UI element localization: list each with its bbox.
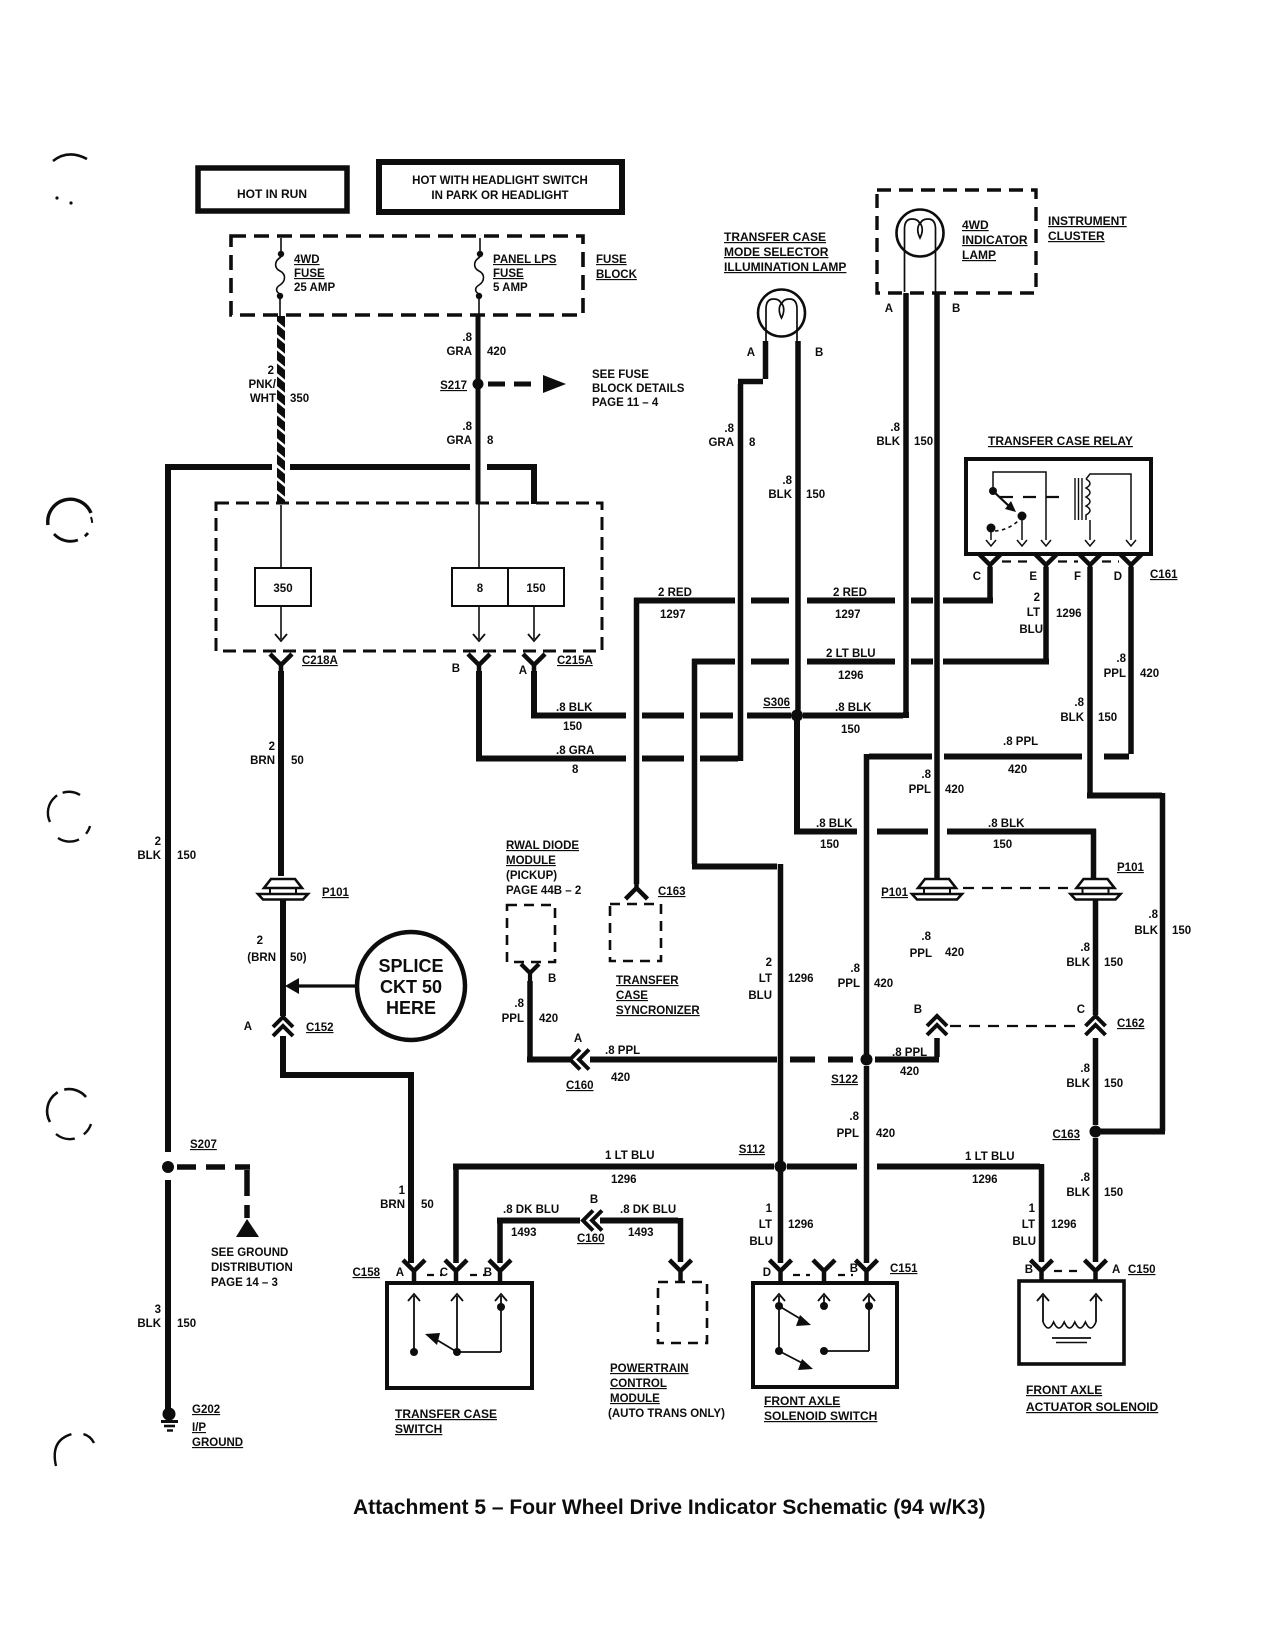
label 2 RED 1297 (left) xyxy=(658,587,692,621)
svg-text:C162: C162 xyxy=(1117,1018,1145,1030)
svg-text:25 AMP: 25 AMP xyxy=(294,282,335,294)
svg-text:SYNCRONIZER: SYNCRONIZER xyxy=(616,1005,700,1017)
label illum pin B xyxy=(815,347,823,359)
connector C215A pin B xyxy=(452,654,490,675)
relay switch common contact xyxy=(1017,512,1027,547)
label 2 BLK 150 xyxy=(137,836,196,862)
svg-text:C163: C163 xyxy=(658,886,686,898)
connector C162 pin B xyxy=(914,1004,947,1035)
wire .8 PPL 420 relay D xyxy=(867,567,1132,1057)
svg-text:MODE SELECTOR: MODE SELECTOR xyxy=(724,245,829,259)
svg-text:2 RED: 2 RED xyxy=(833,587,867,599)
svg-text:BLU: BLU xyxy=(1012,1236,1036,1248)
label .8 PPL 420 (C160-S122) xyxy=(605,1045,640,1084)
label .8 GRA 8 xyxy=(446,421,494,447)
svg-text:P101: P101 xyxy=(1117,862,1144,874)
label 1 LT BLU 1296 (C150 B) xyxy=(1012,1203,1076,1248)
wire BRN below P101 xyxy=(280,900,286,1016)
svg-text:B: B xyxy=(548,973,556,985)
wire C215A-B to illum lamp A (.8 GRA 8) xyxy=(476,382,763,762)
label 3 BLK 150 xyxy=(137,1304,196,1330)
splice S207 xyxy=(162,1139,217,1173)
svg-text:GROUND: GROUND xyxy=(192,1437,243,1449)
svg-text:.8: .8 xyxy=(514,998,524,1010)
arrow from 350 box xyxy=(275,606,287,641)
svg-text:420: 420 xyxy=(876,1128,895,1140)
svg-text:1296: 1296 xyxy=(788,973,814,985)
wire 1 LT BLU 1296 xyxy=(453,1164,1042,1263)
label POWERTRAIN CONTROL MODULE (AUTO TRANS ONLY) xyxy=(608,1363,725,1420)
svg-text:150: 150 xyxy=(806,489,825,501)
svg-text:.8 PPL: .8 PPL xyxy=(892,1047,927,1059)
svg-text:.8: .8 xyxy=(1148,909,1158,921)
wire C215A-A to S306 .8 BLK 150 xyxy=(531,671,791,716)
relay switch NC contact xyxy=(986,524,996,547)
svg-text:1296: 1296 xyxy=(1056,608,1082,620)
svg-text:C: C xyxy=(973,571,981,583)
svg-text:A: A xyxy=(885,303,893,315)
label TRANSFER CASE MODE SELECTOR ILLUMINATION LAMP xyxy=(724,230,846,274)
solenoid coil C150 xyxy=(1037,1294,1102,1343)
connector C160 (DK BLU) xyxy=(577,1194,605,1245)
svg-text:50: 50 xyxy=(421,1199,434,1211)
caption Attachment 5 xyxy=(353,1496,986,1519)
svg-text:.8: .8 xyxy=(782,475,792,487)
svg-text:B: B xyxy=(484,1267,492,1279)
box circuit 8 xyxy=(452,568,508,606)
label SEE FUSE BLOCK DETAILS PAGE 11-4 xyxy=(592,369,685,409)
svg-text:.8 BLK: .8 BLK xyxy=(816,818,853,830)
svg-text:.8 DK BLU: .8 DK BLU xyxy=(620,1204,676,1216)
svg-text:(BRN: (BRN xyxy=(247,952,276,964)
connector PCM pin xyxy=(670,1260,692,1281)
svg-text:MODULE: MODULE xyxy=(506,855,556,867)
label TRANSFER CASE RELAY xyxy=(988,434,1133,448)
connector C158 pin A xyxy=(396,1260,425,1281)
svg-text:4WD: 4WD xyxy=(962,218,989,232)
svg-text:.8: .8 xyxy=(890,422,900,434)
label SEE GROUND DISTRIBUTION PAGE 14-3 xyxy=(211,1247,293,1289)
svg-text:FUSE: FUSE xyxy=(596,254,627,266)
svg-text:D: D xyxy=(763,1267,771,1279)
connector C161 pin D xyxy=(1114,554,1142,583)
relay switch pivot xyxy=(989,487,997,495)
switch C151 pole mid xyxy=(818,1294,830,1310)
label .8 GRA 8 (vertical) xyxy=(708,423,756,449)
label 1 LT BLU 1296 (left) xyxy=(605,1150,655,1186)
label .8 BLK 150 (to C150) xyxy=(1066,1172,1123,1199)
svg-text:2: 2 xyxy=(257,935,263,947)
label 1 BRN 50 xyxy=(380,1185,434,1211)
svg-text:2: 2 xyxy=(155,836,161,848)
svg-text:FUSE: FUSE xyxy=(294,268,325,280)
svg-text:SWITCH: SWITCH xyxy=(395,1422,442,1436)
svg-text:.8: .8 xyxy=(849,1111,859,1123)
svg-text:150: 150 xyxy=(820,839,839,851)
svg-text:8: 8 xyxy=(487,435,494,447)
connector P101 left grommet xyxy=(258,879,349,900)
label 2 LT BLU 1296 (vertical) xyxy=(748,957,813,1002)
wire .8 BLK 150 below C162 xyxy=(1093,1038,1099,1125)
wire .8 BLK 150 S306 branch right xyxy=(794,829,1096,878)
connector C161 pin F xyxy=(1074,554,1101,583)
svg-text:ACTUATOR SOLENOID: ACTUATOR SOLENOID xyxy=(1026,1400,1159,1414)
connector C162 pin C xyxy=(1077,1004,1145,1035)
svg-text:C: C xyxy=(1077,1004,1085,1016)
wire left rail horizontal run xyxy=(165,464,537,504)
svg-text:BLK: BLK xyxy=(137,1318,161,1330)
svg-text:BLK: BLK xyxy=(137,850,161,862)
label .8 BLK 150 (illum B) xyxy=(768,475,825,501)
svg-text:.8: .8 xyxy=(1080,942,1090,954)
svg-text:B: B xyxy=(850,1263,858,1275)
ground G202 xyxy=(161,1408,178,1431)
wire C163 tie to F branch xyxy=(1101,1129,1165,1135)
svg-text:420: 420 xyxy=(874,978,893,990)
node HOT WITH HEADLIGHT SWITCH feed box xyxy=(379,162,622,212)
svg-text:C160: C160 xyxy=(577,1233,605,1245)
label .8 PPL 420 (right of S122) xyxy=(892,1047,927,1078)
svg-text:POWERTRAIN: POWERTRAIN xyxy=(610,1363,689,1375)
splice C163 junction xyxy=(1053,1126,1102,1142)
label TRANSFER CASE SYNCRONIZER xyxy=(616,975,700,1017)
box circuit 350 xyxy=(255,568,311,606)
svg-text:C160: C160 xyxy=(566,1080,594,1092)
connector C150 dashed body xyxy=(1054,1270,1083,1272)
svg-text:BLK: BLK xyxy=(876,436,900,448)
svg-text:BRN: BRN xyxy=(250,755,275,767)
svg-text:B: B xyxy=(914,1004,922,1016)
svg-text:(AUTO TRANS ONLY): (AUTO TRANS ONLY) xyxy=(608,1408,725,1420)
svg-text:PPL: PPL xyxy=(502,1013,524,1025)
connector C158 pin B xyxy=(484,1260,511,1281)
connector C158 pin C xyxy=(440,1260,467,1281)
svg-text:BLOCK DETAILS: BLOCK DETAILS xyxy=(592,383,685,395)
label .8 BLK 150 (upper horizontal left) xyxy=(816,818,853,851)
svg-text:420: 420 xyxy=(945,784,964,796)
svg-text:1296: 1296 xyxy=(838,670,864,682)
svg-text:INSTRUMENT: INSTRUMENT xyxy=(1048,214,1127,228)
label FUSE BLOCK xyxy=(596,254,638,281)
svg-text:C161: C161 xyxy=(1150,569,1178,581)
svg-text:A: A xyxy=(574,1033,582,1045)
label .8 DK BLU 1493 (right) xyxy=(620,1204,676,1239)
switch C151 pole B xyxy=(863,1294,875,1351)
svg-text:.8: .8 xyxy=(1116,653,1126,665)
svg-text:DISTRIBUTION: DISTRIBUTION xyxy=(211,1262,293,1274)
node HOT IN RUN feed box xyxy=(198,168,347,211)
relay linkage dashed xyxy=(1000,496,1068,498)
connector P101 right (BLK) xyxy=(1071,862,1145,900)
label FRONT AXLE SOLENOID SWITCH xyxy=(764,1394,877,1423)
label .8 PPL 420 (4WD lamp B lower) xyxy=(910,931,965,960)
svg-text:B: B xyxy=(1025,1264,1033,1276)
svg-text:FRONT AXLE: FRONT AXLE xyxy=(1026,1383,1102,1397)
splice S122 xyxy=(831,1054,872,1087)
connector C161 pin C xyxy=(973,554,1001,583)
svg-text:2: 2 xyxy=(1034,592,1040,604)
svg-text:BLU: BLU xyxy=(748,990,772,1002)
relay switch arm xyxy=(993,491,1016,512)
svg-text:1493: 1493 xyxy=(511,1227,537,1239)
svg-text:.8 BLK: .8 BLK xyxy=(556,702,593,714)
label .8 PPL 420 (horizontal) xyxy=(1003,736,1038,776)
svg-text:8: 8 xyxy=(477,583,484,595)
connector C218A xyxy=(270,654,338,675)
label .8 PPL 420 (S122 vertical upper) xyxy=(838,963,894,990)
wire 2 RED 1297 xyxy=(634,567,993,884)
fuse-output dashed enclosure xyxy=(216,503,602,651)
svg-text:B: B xyxy=(815,347,823,359)
switch C151 tie xyxy=(820,1347,869,1355)
arrow from 150 box xyxy=(528,606,540,641)
svg-text:GRA: GRA xyxy=(708,437,734,449)
svg-text:C150: C150 xyxy=(1128,1264,1156,1276)
svg-text:150: 150 xyxy=(526,583,545,595)
label 2 RED 1297 (right) xyxy=(833,587,867,621)
wire C152 to transfer case switch xyxy=(280,1036,414,1263)
svg-text:HOT WITH HEADLIGHT SWITCH: HOT WITH HEADLIGHT SWITCH xyxy=(412,175,588,187)
connector C161 pin E xyxy=(1029,554,1057,583)
splice S306 xyxy=(763,697,803,722)
wire .8 PPL 420 C160 to S122 xyxy=(590,1057,853,1063)
wire .8 DK BLU 1493 xyxy=(497,1218,681,1263)
connector C162 dashed tie xyxy=(950,1025,1083,1027)
svg-text:GRA: GRA xyxy=(446,346,472,358)
svg-text:SEE FUSE: SEE FUSE xyxy=(592,369,649,381)
label .8 BLK 150 (4WD lamp A) xyxy=(876,422,933,448)
svg-text:LT: LT xyxy=(1027,607,1040,619)
wire .8 PPL below S122 xyxy=(864,1066,870,1263)
wire 2 BRN 50 xyxy=(278,671,284,876)
wire 2 LT BLU 1296 xyxy=(692,567,1049,1263)
svg-text:1297: 1297 xyxy=(660,609,686,621)
svg-text:.8: .8 xyxy=(1080,1063,1090,1075)
label .8 BLK 150 (upper horizontal right) xyxy=(988,818,1025,851)
wire .8 BLK 150 below P101 xyxy=(1093,900,1099,1015)
svg-text:A: A xyxy=(244,1021,252,1033)
svg-text:1296: 1296 xyxy=(611,1174,637,1186)
svg-text:A: A xyxy=(1112,1264,1120,1276)
svg-text:BLU: BLU xyxy=(749,1236,773,1248)
relay contact travel dotted arc xyxy=(995,520,1019,531)
switch C151 pole D xyxy=(773,1294,785,1355)
svg-text:150: 150 xyxy=(841,724,860,736)
label C158 xyxy=(353,1267,381,1279)
label .8 BLK 150 (relay F) xyxy=(1060,697,1117,724)
svg-text:PPL: PPL xyxy=(837,1128,859,1140)
label C151 xyxy=(890,1263,918,1275)
wire 4WD lamp leg A .8 BLK 150 xyxy=(903,293,909,712)
svg-text:150: 150 xyxy=(1098,712,1117,724)
label 1 LT BLU 1296 (right) xyxy=(965,1151,1015,1186)
svg-text:.8: .8 xyxy=(1080,1172,1090,1184)
svg-text:420: 420 xyxy=(945,947,964,959)
fuse 4WD FUSE 25 AMP xyxy=(276,238,285,316)
svg-text:A: A xyxy=(747,347,755,359)
svg-text:FRONT AXLE: FRONT AXLE xyxy=(764,1394,840,1408)
svg-text:LT: LT xyxy=(759,973,772,985)
svg-text:PPL: PPL xyxy=(909,784,931,796)
svg-text:LT: LT xyxy=(759,1219,772,1231)
svg-text:INDICATOR: INDICATOR xyxy=(962,233,1028,247)
label 4WD lamp pin B xyxy=(952,303,960,315)
svg-text:GRA: GRA xyxy=(446,435,472,447)
label illum pin A xyxy=(747,347,755,359)
svg-text:150: 150 xyxy=(1104,1187,1123,1199)
svg-text:1296: 1296 xyxy=(1051,1219,1077,1231)
switch C158 lever xyxy=(425,1333,457,1352)
label .8 DK BLU 1493 (left) xyxy=(503,1204,559,1239)
svg-text:1297: 1297 xyxy=(835,609,861,621)
svg-text:B: B xyxy=(590,1194,598,1206)
svg-text:150: 150 xyxy=(1104,957,1123,969)
svg-text:S112: S112 xyxy=(739,1144,765,1156)
svg-text:BLU: BLU xyxy=(1019,624,1043,636)
switch C151 lever upper xyxy=(779,1306,811,1326)
wire 4WD lamp leg B .8 PPL xyxy=(934,293,940,878)
connector C161 dashed body xyxy=(1002,560,1119,562)
relay arrow to F xyxy=(1085,540,1095,546)
wire .8 GRA 420 xyxy=(476,316,481,381)
label 4WD lamp pin A xyxy=(885,303,893,315)
label .8 PPL 420 (below S122) xyxy=(837,1111,896,1140)
label 2 LT BLU 1296 (relay E) xyxy=(1019,592,1081,636)
label .8 BLK 150 (left) xyxy=(556,702,593,733)
svg-text:PNK/: PNK/ xyxy=(249,379,277,391)
svg-text:1 LT BLU: 1 LT BLU xyxy=(965,1151,1015,1163)
label .8 BLK 150 (below C162) xyxy=(1066,1063,1123,1090)
svg-text:TRANSFER CASE: TRANSFER CASE xyxy=(395,1407,497,1421)
svg-text:S306: S306 xyxy=(763,697,790,709)
svg-text:.8: .8 xyxy=(724,423,734,435)
svg-text:C215A: C215A xyxy=(557,655,593,667)
fuse block dashed enclosure xyxy=(231,236,583,315)
wire 2 BLK 150 left rail down xyxy=(165,464,171,1152)
svg-text:8: 8 xyxy=(572,764,579,776)
svg-text:RWAL DIODE: RWAL DIODE xyxy=(506,840,579,852)
svg-text:.8: .8 xyxy=(1074,697,1084,709)
connector C152 xyxy=(244,1017,334,1036)
relay box xyxy=(966,459,1151,554)
instrument cluster dashed enclosure xyxy=(877,190,1036,293)
switch C158 pole A xyxy=(408,1294,420,1356)
svg-text:420: 420 xyxy=(487,346,506,358)
svg-text:420: 420 xyxy=(539,1013,558,1025)
svg-text:150: 150 xyxy=(1104,1078,1123,1090)
label .8 BLK 150 (below P101) xyxy=(1066,942,1123,969)
fuse PANEL LPS FUSE 5 AMP xyxy=(475,238,484,316)
svg-text:PPL: PPL xyxy=(910,948,932,960)
svg-text:TRANSFER CASE: TRANSFER CASE xyxy=(724,230,826,244)
svg-text:SOLENOID SWITCH: SOLENOID SWITCH xyxy=(764,1409,877,1423)
box transfer case switch xyxy=(387,1283,532,1388)
wire S217 dashed arrow to fuse-block details xyxy=(488,375,566,393)
svg-text:BLK: BLK xyxy=(1134,925,1158,937)
svg-text:LAMP: LAMP xyxy=(962,248,996,262)
label 1 LT BLU 1296 (S112 down) xyxy=(749,1203,813,1248)
splice S217 xyxy=(440,379,483,393)
label .8 PPL 420 (relay D vertical) xyxy=(1104,653,1160,680)
svg-text:50: 50 xyxy=(291,755,304,767)
connector RWAL pin B xyxy=(521,964,556,985)
svg-text:BLK: BLK xyxy=(1066,1187,1090,1199)
relay arrow to E xyxy=(1041,540,1051,546)
paper punch hole artifacts xyxy=(47,154,94,1466)
svg-text:CONTROL: CONTROL xyxy=(610,1378,667,1390)
wire into 8 box xyxy=(478,504,480,568)
label .8 GRA 420 xyxy=(446,332,506,358)
splice circle SPLICE CKT 50 HERE xyxy=(357,932,465,1040)
svg-text:150: 150 xyxy=(563,721,582,733)
svg-text:150: 150 xyxy=(1172,925,1191,937)
connector C151 pin mid xyxy=(813,1260,835,1281)
svg-text:C: C xyxy=(440,1267,448,1279)
wire .8 BLK 150 C163 to C150-A xyxy=(1093,1138,1099,1262)
svg-text:BLK: BLK xyxy=(1066,1078,1090,1090)
label (2 BRN 50) xyxy=(247,935,307,964)
label 2 PNK/WHT 350 xyxy=(249,365,310,405)
svg-text:I/P: I/P xyxy=(192,1422,206,1434)
rwal diode module dashed box xyxy=(507,905,555,962)
svg-text:150: 150 xyxy=(177,850,196,862)
label PANEL LPS FUSE 5 AMP xyxy=(493,254,557,294)
svg-text:C151: C151 xyxy=(890,1263,918,1275)
connector C151 pin D xyxy=(763,1260,792,1281)
wire 2 PNK/WHT 350 (hatched) xyxy=(276,316,287,503)
connector C151 dashed body xyxy=(793,1274,853,1276)
switch C158 tie xyxy=(457,1351,501,1353)
lamp illumination bulb xyxy=(758,290,805,342)
svg-text:420: 420 xyxy=(1008,764,1027,776)
connector C163 (syncronizer) xyxy=(626,879,686,899)
svg-text:B: B xyxy=(452,663,460,675)
svg-text:420: 420 xyxy=(611,1072,630,1084)
relay coil xyxy=(1075,474,1131,540)
svg-text:.8 DK BLU: .8 DK BLU xyxy=(503,1204,559,1216)
svg-text:A: A xyxy=(396,1267,404,1279)
svg-text:D: D xyxy=(1114,571,1122,583)
connector P101 mid (PPL) xyxy=(881,879,962,900)
svg-text:Attachment 5 – Four Wheel Driv: Attachment 5 – Four Wheel Drive Indicato… xyxy=(353,1496,986,1519)
svg-text:.8: .8 xyxy=(850,963,860,975)
svg-text:.8 BLK: .8 BLK xyxy=(835,702,872,714)
svg-text:C163: C163 xyxy=(1053,1129,1081,1141)
svg-text:CASE: CASE xyxy=(616,990,648,1002)
arrow from 8 box xyxy=(473,606,485,641)
svg-text:TRANSFER CASE RELAY: TRANSFER CASE RELAY xyxy=(988,434,1133,448)
label .8 BLK 150 (right vertical) xyxy=(1134,909,1191,937)
svg-text:WHT: WHT xyxy=(250,393,276,405)
label .8 BLK 150 (right of S306) xyxy=(835,702,872,736)
svg-text:BLK: BLK xyxy=(1066,957,1090,969)
wire illum lamp leg B .8 BLK 150 xyxy=(795,341,801,712)
svg-text:P101: P101 xyxy=(322,887,349,899)
svg-text:2 RED: 2 RED xyxy=(658,587,692,599)
switch C151 lever lower xyxy=(779,1351,813,1370)
powertrain control module dashed box xyxy=(658,1282,707,1343)
svg-text:150: 150 xyxy=(177,1318,196,1330)
svg-text:C218A: C218A xyxy=(302,655,338,667)
svg-text:S217: S217 xyxy=(440,380,467,392)
svg-text:P101: P101 xyxy=(881,887,908,899)
svg-text:F: F xyxy=(1074,571,1081,583)
svg-text:TRANSFER: TRANSFER xyxy=(616,975,679,987)
switch C158 pole C xyxy=(451,1294,463,1356)
svg-text:1296: 1296 xyxy=(788,1219,814,1231)
svg-text:.8 GRA: .8 GRA xyxy=(556,745,594,757)
svg-text:G202: G202 xyxy=(192,1404,220,1416)
